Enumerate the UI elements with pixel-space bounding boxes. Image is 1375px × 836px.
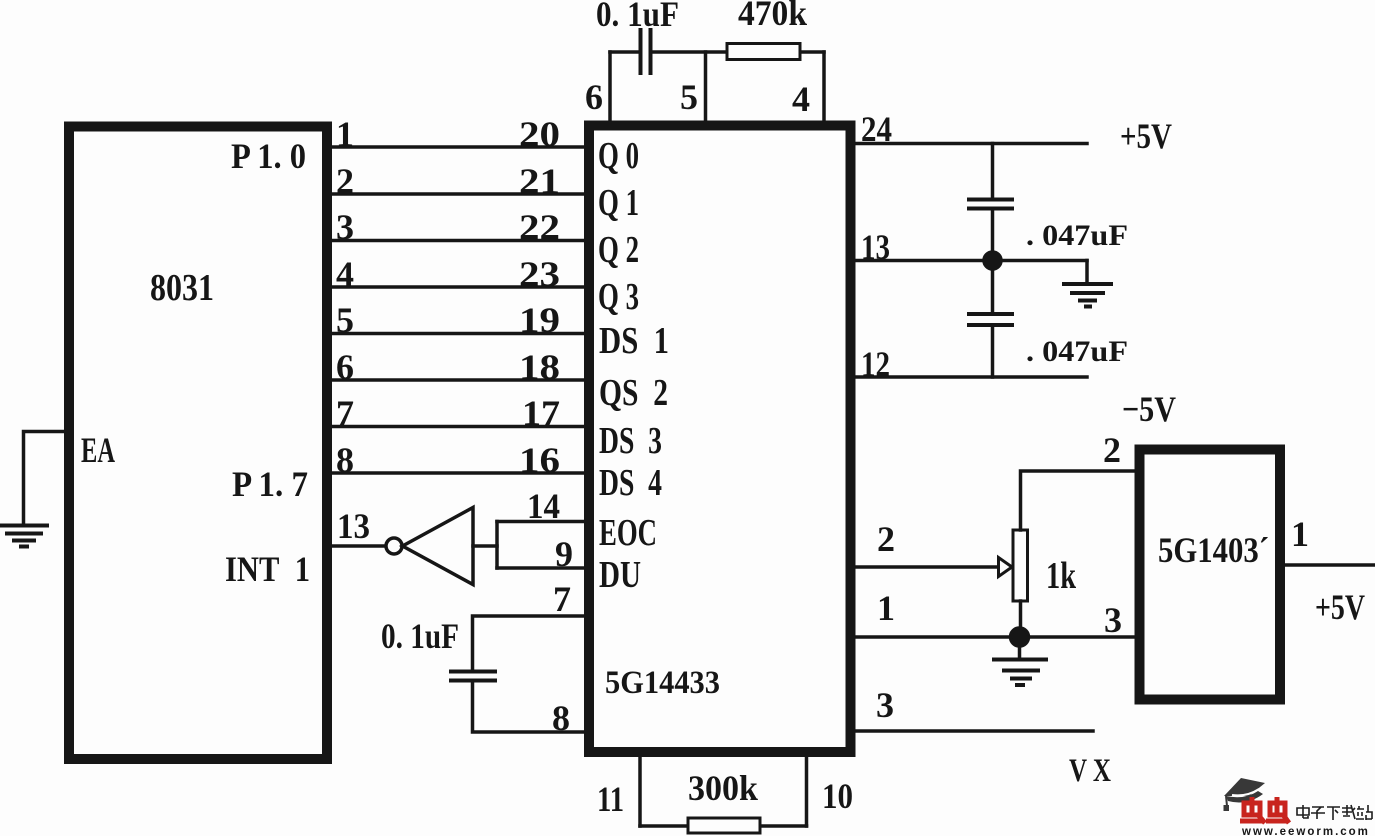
wire pot top to 5G1403 pin2 xyxy=(1021,471,1135,530)
IC U1 8031 body xyxy=(69,127,327,760)
wire C4 to pin8 xyxy=(473,683,585,732)
wire pin14 EOC xyxy=(497,520,584,524)
svg-text:7: 7 xyxy=(336,393,354,433)
wire pin7 to C4 xyxy=(473,616,585,669)
svg-text:22: 22 xyxy=(519,207,560,247)
svg-text:0. 1uF: 0. 1uF xyxy=(596,0,679,34)
svg-text:QS 2: QS 2 xyxy=(599,372,668,414)
svg-text:2: 2 xyxy=(1103,430,1121,470)
svg-text:470k: 470k xyxy=(738,0,807,33)
IC U2 5G14433 body xyxy=(589,126,851,753)
svg-text:1k: 1k xyxy=(1046,555,1077,597)
svg-text:P 1. 0: P 1. 0 xyxy=(231,136,306,176)
svg-text:8031: 8031 xyxy=(150,267,214,309)
wire vertical +5V rail to C2 xyxy=(991,144,995,198)
svg-text:Q 3: Q 3 xyxy=(598,276,639,318)
capacitor C2 .047uF plates xyxy=(969,200,1012,209)
svg-text:0. 1uF: 0. 1uF xyxy=(381,616,459,656)
svg-text:5: 5 xyxy=(336,300,354,340)
svg-text:. 047uF: . 047uF xyxy=(1026,335,1128,368)
svg-text:. 047uF: . 047uF xyxy=(1026,219,1128,252)
wire pin6 to pin18 QS2 xyxy=(332,378,584,382)
svg-text:24: 24 xyxy=(861,109,892,149)
wire pin3 VX xyxy=(855,729,1093,733)
capacitor C3 .047uF plates xyxy=(969,314,1012,325)
wire top horizontal left of C1 xyxy=(610,50,639,54)
wire pin3 to pin22 Q2 xyxy=(332,239,584,243)
ground G1 under EA xyxy=(0,526,47,547)
wire node to ground G2 xyxy=(1085,261,1089,283)
wire pin2 to pin21 Q1 xyxy=(332,192,584,196)
svg-text:5: 5 xyxy=(680,77,698,117)
wire 5G1403 pin1 to +5V xyxy=(1285,563,1375,567)
wire pin24 to +5V xyxy=(855,142,1087,146)
potentiometer RP1 arrow xyxy=(999,558,1013,577)
wire pin13 horizontal xyxy=(855,259,1087,263)
wire pin9 DU xyxy=(497,566,584,570)
wire node A to C3 xyxy=(991,261,995,313)
wire node B to ground G3 xyxy=(1018,644,1022,657)
svg-text:10: 10 xyxy=(822,776,853,816)
wire pin6 top vertical xyxy=(608,52,612,123)
svg-text:14: 14 xyxy=(527,486,560,526)
svg-text:9: 9 xyxy=(555,534,573,574)
inverter U4 triangle xyxy=(403,508,474,585)
wire pin5 to pin19 DS1 xyxy=(332,332,584,336)
wire pin5 top vertical xyxy=(704,52,708,123)
svg-text:18: 18 xyxy=(519,347,560,387)
wire pin1 to 5G1403 pin3 xyxy=(855,635,1134,639)
svg-text:P 1. 7: P 1. 7 xyxy=(232,464,308,504)
wire inverter output xyxy=(473,544,497,548)
wire node joining EOC and DU xyxy=(495,522,499,569)
wire bottom horizontal R2 xyxy=(640,824,807,828)
potentiometer RP1 1k body xyxy=(1013,530,1028,601)
wire C2 to node A xyxy=(991,210,995,261)
svg-text:23: 23 xyxy=(519,254,560,294)
capacitor C4 0.1uF plates xyxy=(451,672,495,681)
svg-text:INT 1: INT 1 xyxy=(225,549,310,589)
IC U3 5G1403 body xyxy=(1140,450,1281,700)
wire pin12 horizontal xyxy=(855,375,1087,379)
svg-text:13: 13 xyxy=(861,227,890,267)
svg-text:www.eeworm.com: www.eeworm.com xyxy=(1241,826,1370,836)
resistor R2 300k body xyxy=(688,818,760,833)
svg-text:EOC: EOC xyxy=(599,512,657,554)
svg-text:3: 3 xyxy=(1104,600,1122,640)
logo text chongchong (red worm characters) xyxy=(1240,797,1289,823)
wire pot bottom to node B xyxy=(1019,601,1023,637)
svg-text:2: 2 xyxy=(877,519,895,559)
svg-text:1: 1 xyxy=(877,588,895,628)
svg-text:+5V: +5V xyxy=(1120,116,1172,156)
wire pin2 to potentiometer arrow xyxy=(855,565,999,569)
svg-text:11: 11 xyxy=(597,779,624,819)
svg-text:12: 12 xyxy=(861,344,890,384)
logo eeworm graduation cap xyxy=(1224,778,1266,811)
svg-text:DU: DU xyxy=(599,554,641,596)
svg-text:3: 3 xyxy=(876,685,894,725)
svg-text:13: 13 xyxy=(337,506,370,546)
svg-text:21: 21 xyxy=(519,161,560,201)
node A junction dot xyxy=(984,252,1001,269)
wire pin1 P1.0 to pin20 Q0 xyxy=(332,145,584,149)
wire pin11 vertical xyxy=(638,757,642,826)
wire pin4 top vertical xyxy=(822,52,826,123)
svg-text:DS 1: DS 1 xyxy=(599,320,669,362)
capacitor C1 0.1uF plates xyxy=(641,30,651,73)
svg-text:19: 19 xyxy=(519,300,560,340)
svg-text:16: 16 xyxy=(519,440,560,480)
node B junction dot xyxy=(1011,628,1029,646)
svg-text:7: 7 xyxy=(553,579,571,619)
svg-text:DS 3: DS 3 xyxy=(599,420,662,462)
svg-text:−5V: −5V xyxy=(1122,389,1176,429)
wire INT1 pin13 to inverter xyxy=(332,544,386,548)
wire pin7 to pin17 DS3 xyxy=(332,425,584,429)
svg-text:V X: V X xyxy=(1069,753,1111,789)
svg-text:2: 2 xyxy=(336,161,354,201)
svg-text:Q 1: Q 1 xyxy=(598,182,639,224)
svg-text:Q 2: Q 2 xyxy=(598,229,639,271)
logo text dianzixiazaizhan (electronics download site) xyxy=(1297,805,1372,820)
wire top horizontal C1 to pin4 vertical xyxy=(652,50,824,54)
ground G3 under node B xyxy=(994,660,1046,686)
svg-text:4: 4 xyxy=(792,79,810,119)
svg-text:DS 4: DS 4 xyxy=(599,462,662,504)
ground G2 right of pin13 xyxy=(1064,284,1111,307)
wire C3 to pin12 wire xyxy=(991,327,995,377)
svg-text:300k: 300k xyxy=(688,768,758,808)
wire pin4 to pin23 Q3 xyxy=(332,285,584,289)
wire pin10 vertical xyxy=(805,757,809,826)
svg-text:1: 1 xyxy=(1291,514,1309,554)
svg-text:8: 8 xyxy=(336,440,354,480)
svg-text:3: 3 xyxy=(336,207,354,247)
svg-text:Q 0: Q 0 xyxy=(598,135,639,177)
svg-text:5G14433: 5G14433 xyxy=(605,665,720,701)
svg-text:+5V: +5V xyxy=(1315,587,1365,627)
svg-text:20: 20 xyxy=(519,114,560,154)
wire pin8 P1.7 to pin16 DS4 xyxy=(332,471,584,475)
svg-text:6: 6 xyxy=(585,77,603,117)
resistor R1 470k body xyxy=(727,44,800,60)
inverter U4 bubble xyxy=(386,538,402,554)
svg-text:1: 1 xyxy=(336,114,354,154)
svg-text:5G1403´: 5G1403´ xyxy=(1158,530,1269,570)
svg-text:17: 17 xyxy=(522,393,560,433)
wire EA to ground xyxy=(24,432,65,525)
svg-text:8: 8 xyxy=(552,698,570,738)
svg-text:4: 4 xyxy=(336,254,354,294)
svg-text:EA: EA xyxy=(81,430,115,470)
svg-text:6: 6 xyxy=(336,347,354,387)
